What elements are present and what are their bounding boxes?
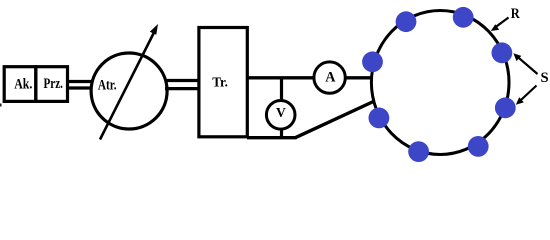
box Ak. xyxy=(4,67,36,102)
S arrow 2 head xyxy=(516,97,524,105)
svg-text:V: V xyxy=(276,106,286,121)
autotransformer Atr. circle xyxy=(91,53,167,129)
top wire Tr to ring xyxy=(247,76,372,79)
voltmeter stem bottom xyxy=(280,127,283,139)
Atr. arrowhead xyxy=(150,24,158,35)
ammeter A xyxy=(314,62,345,93)
svg-text:A: A xyxy=(325,70,335,86)
sample dot 3 xyxy=(492,42,513,63)
ring (toroid) xyxy=(371,11,509,155)
svg-text:Ak.: Ak. xyxy=(14,77,32,93)
voltmeter V xyxy=(266,101,295,130)
box Prz. xyxy=(36,67,68,102)
S arrow 2 shaft xyxy=(519,86,536,102)
sample dot 7 xyxy=(369,108,390,129)
sample dot 1 xyxy=(396,11,417,32)
svg-text:R: R xyxy=(511,6,520,22)
sample dot 5 xyxy=(468,136,489,157)
svg-text:Atr.: Atr. xyxy=(98,77,117,93)
wire pair Prz to Atr xyxy=(68,80,94,83)
svg-text:S: S xyxy=(540,70,548,86)
bottom wire Tr to bend xyxy=(247,136,297,139)
sample dot 2 xyxy=(453,7,474,28)
S arrow 1 shaft xyxy=(518,57,538,74)
transformer Tr. box xyxy=(199,28,247,137)
wire pair Atr to Tr xyxy=(165,79,199,82)
sample dot 8 xyxy=(362,51,383,72)
svg-text:Tr.: Tr. xyxy=(212,76,228,91)
sample dot 4 xyxy=(495,97,516,118)
R arrow shaft xyxy=(496,18,509,27)
R arrowhead xyxy=(491,24,499,31)
svg-text:Prz.: Prz. xyxy=(44,76,64,92)
diagonal wire bend to ring xyxy=(295,101,374,138)
Atr. arrow shaft xyxy=(100,32,155,140)
edge mark xyxy=(0,104,2,107)
voltmeter stem top xyxy=(280,78,283,102)
sample dot 6 xyxy=(408,141,429,162)
S arrow 1 head xyxy=(513,53,521,61)
